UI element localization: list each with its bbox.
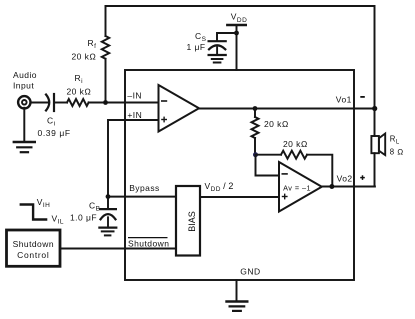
wire Rf rail upper (105, 6, 107, 36)
node R1 R2 junction (253, 152, 258, 157)
wire Rf rail lower (105, 59, 107, 103)
wire node to R2 (256, 154, 282, 156)
wire Cs branch (217, 33, 237, 41)
wire VDD rail (236, 25, 238, 70)
label Shutdown pin with overline (128, 238, 169, 249)
label -IN (127, 90, 142, 100)
label RL value 8 ohm (390, 148, 404, 157)
shutdown control box (7, 230, 61, 266)
node VDD Cs junction (234, 31, 239, 36)
capacitor Ci (46, 94, 54, 111)
ground main stem (236, 280, 238, 302)
svg-text:Audio: Audio (13, 70, 37, 80)
wire rail Vo1 to speaker (374, 109, 376, 137)
label Ci (47, 115, 56, 127)
label Bypass (129, 183, 160, 193)
speaker RL (371, 134, 385, 156)
svg-text:BIAS: BIAS (187, 211, 197, 232)
wire Bypass (108, 196, 176, 198)
node Bypass junction (106, 194, 111, 199)
label Shutdown Control (13, 239, 54, 260)
svg-text:20 kΩ: 20 kΩ (72, 52, 97, 62)
label Vo1 (336, 95, 352, 105)
svg-text:1.0 μF: 1.0 μF (70, 213, 97, 223)
label Av gain (283, 184, 311, 193)
svg-text:1 μF: 1 μF (187, 42, 206, 52)
IC box outline (125, 70, 354, 280)
wire U2 minus input (256, 155, 280, 176)
label minus polarity (360, 96, 365, 98)
capacitor Cb (100, 197, 116, 228)
resistor R1 20k vertical (252, 109, 259, 155)
label Vo2 (337, 173, 353, 183)
node Vo1 rail junction (372, 106, 377, 111)
resistor Rf (102, 36, 109, 59)
ground Cb (99, 228, 116, 236)
node Vo2 junction (329, 184, 334, 189)
wire top feedback from Rf to right rail (106, 6, 375, 109)
label GND (240, 266, 260, 276)
label R2 value 20k (283, 139, 308, 149)
ground Cs (209, 55, 226, 63)
wire R2 to Vo2 node (307, 155, 332, 187)
wire U2 output to rail (322, 186, 375, 188)
svg-text:Vo2: Vo2 (337, 173, 353, 183)
svg-text:8 Ω: 8 Ω (390, 148, 404, 157)
label Cb value (70, 213, 97, 223)
svg-text:0.39 μF: 0.39 μF (38, 128, 71, 138)
label +IN (127, 110, 142, 120)
svg-text:+IN: +IN (127, 110, 142, 120)
label Audio Input (13, 70, 37, 91)
svg-text:GND: GND (240, 266, 260, 276)
label Rf value 20k (72, 52, 97, 62)
svg-text:Shutdown: Shutdown (128, 238, 169, 248)
capacitor Cs (209, 41, 226, 55)
ground input jack (14, 142, 35, 152)
resistor R2 20k horizontal (281, 151, 307, 159)
wire U1 output to right rail Vo1 (199, 108, 375, 110)
svg-text:Input: Input (13, 80, 34, 90)
op-amp U2 (279, 162, 322, 212)
wire shutdown control to BIAS (60, 248, 176, 250)
svg-text:20 kΩ: 20 kΩ (67, 87, 92, 97)
label Ci value (38, 128, 71, 138)
wire jack to Ci (31, 102, 49, 104)
ground main (227, 302, 248, 311)
label Rf (88, 38, 97, 50)
svg-text:Bypass: Bypass (129, 183, 160, 193)
label BIAS (187, 211, 197, 232)
resistor Ri (67, 99, 89, 106)
BIAS box (176, 186, 200, 256)
label VIH (37, 197, 51, 209)
svg-text:Vo1: Vo1 (336, 95, 352, 105)
svg-text:–IN: –IN (127, 90, 142, 100)
wire +IN pin (108, 120, 159, 197)
svg-text:Av = –1: Av = –1 (283, 184, 311, 193)
node Vo1 R1 junction (253, 106, 258, 111)
label VIL (52, 213, 64, 225)
op-amp U1 (159, 85, 200, 132)
svg-text:20 kΩ: 20 kΩ (264, 119, 289, 129)
supply VDD bar (227, 24, 245, 27)
svg-text:Shutdown: Shutdown (13, 239, 54, 249)
label Cs value (187, 42, 206, 52)
audio input jack (18, 96, 30, 108)
label Cb (89, 201, 100, 213)
label RL (390, 134, 400, 145)
wire speaker to Vo2 corner (374, 153, 376, 186)
label R1 value 20k (264, 119, 289, 129)
svg-text:Control: Control (17, 250, 49, 260)
label Ri value 20k (67, 87, 92, 97)
waveform VIH VIL step (21, 205, 46, 220)
label plus polarity (360, 175, 365, 180)
label Ri (75, 73, 84, 85)
label VDD/2 (205, 181, 234, 193)
label VDD (231, 12, 247, 24)
wire Ri to -IN pin (89, 102, 159, 104)
wire Ci to Ri (55, 102, 67, 104)
node -IN junction (103, 100, 108, 105)
wire VDD/2 to U2 plus (200, 196, 279, 198)
ground input jack stem (23, 108, 25, 142)
svg-text:20 kΩ: 20 kΩ (283, 139, 308, 149)
label Cs (195, 31, 207, 43)
